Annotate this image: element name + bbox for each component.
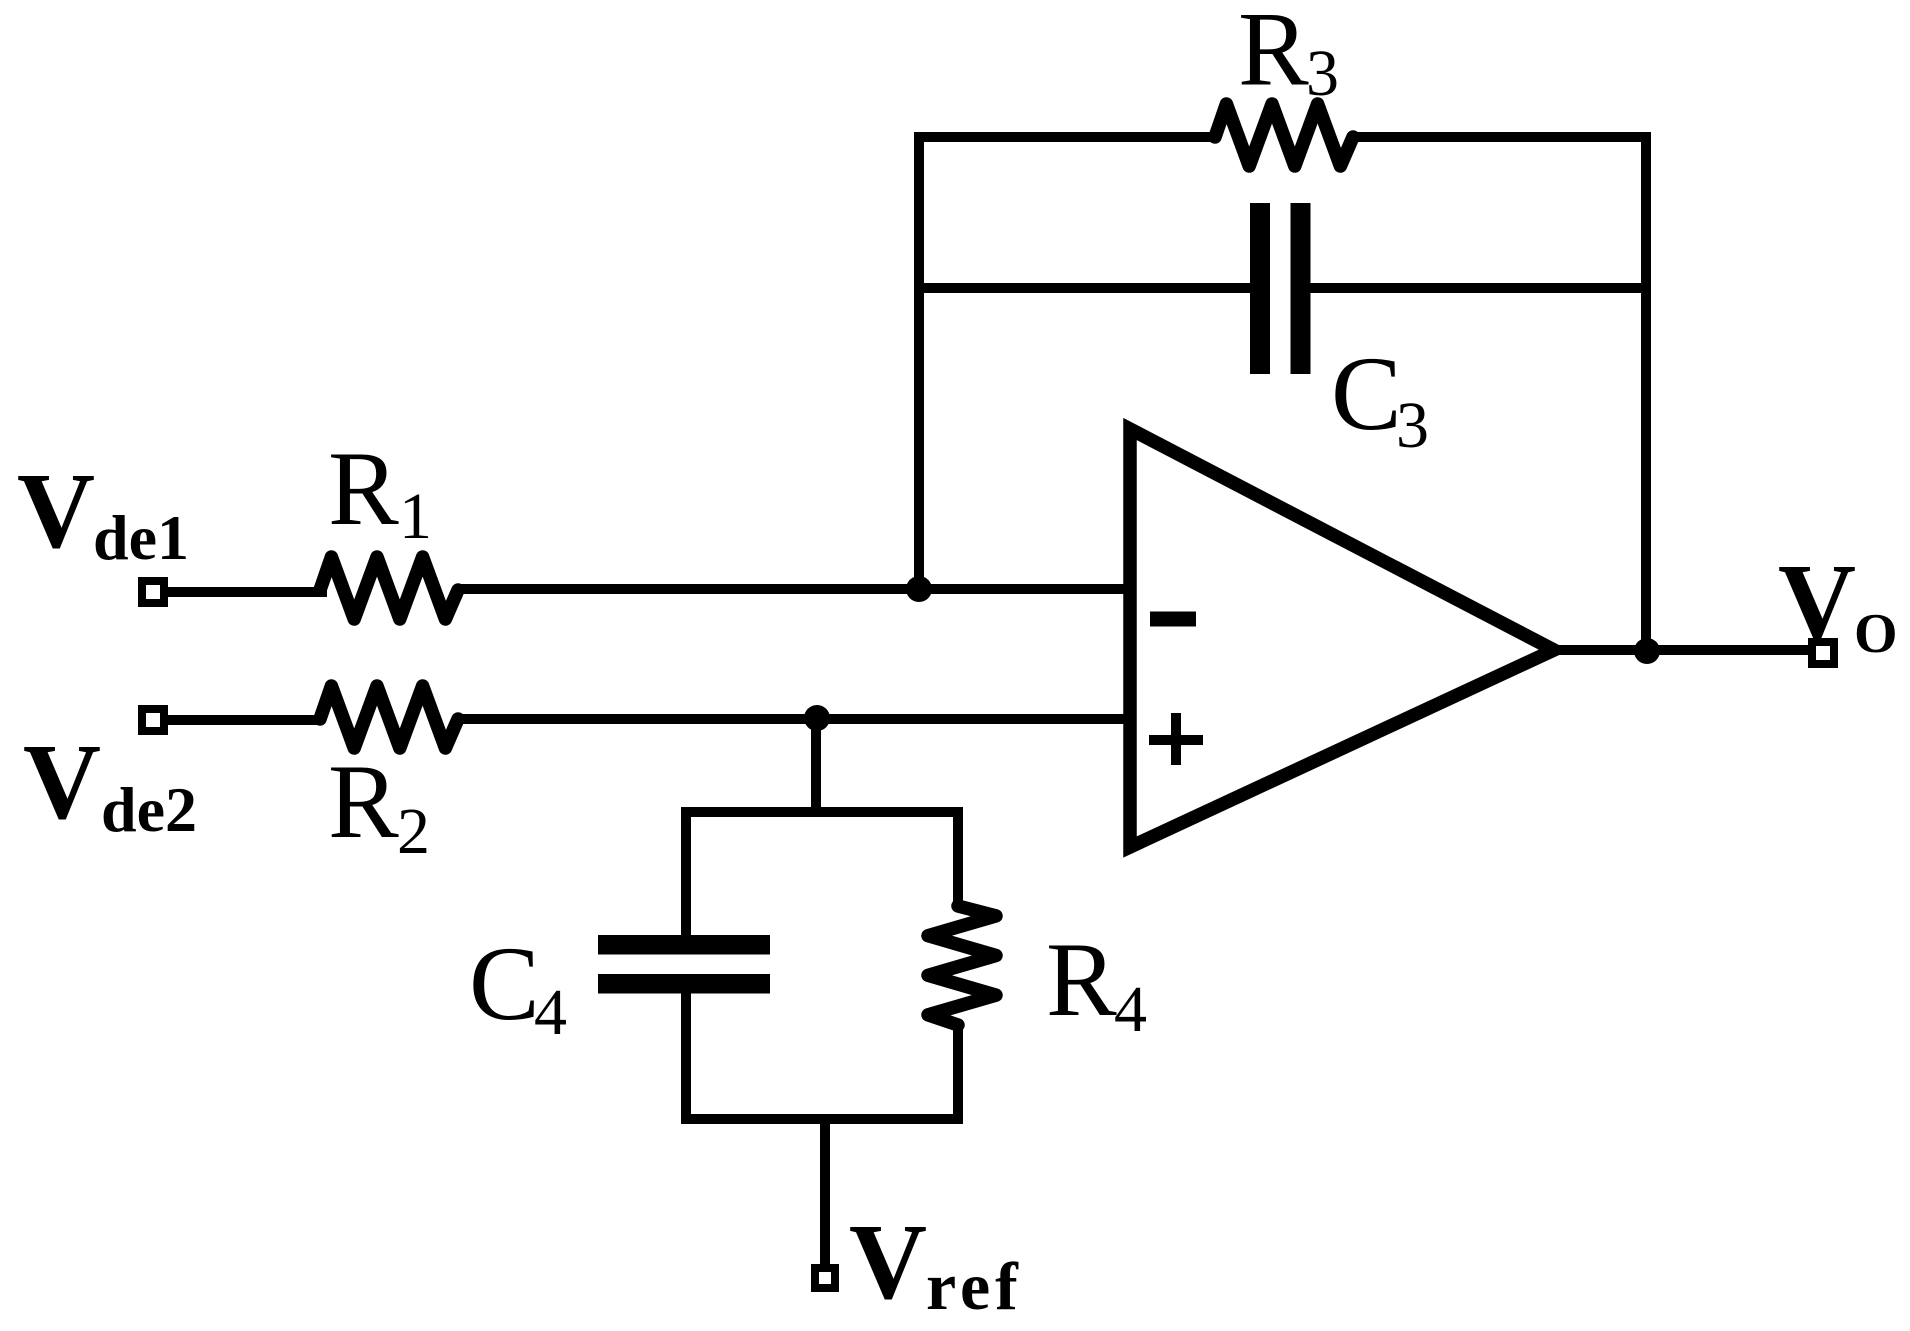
node inverting input junction [906, 576, 932, 602]
label Vref [849, 1203, 1023, 1324]
svg-text:4: 4 [1114, 973, 1147, 1046]
wire C4 branch upper [681, 812, 691, 935]
wire R2 to non-inverting input [458, 714, 1130, 724]
capacitor C3 [1250, 203, 1311, 374]
capacitor C4 [598, 935, 770, 994]
resistor R1 [320, 557, 458, 619]
svg-text:R: R [1238, 0, 1309, 108]
op-amp non-inverting input plus sign [1149, 713, 1203, 765]
svg-text:de1: de1 [93, 502, 189, 573]
wire feedback left vertical [914, 137, 924, 589]
svg-text:V: V [1778, 543, 1856, 662]
label Vo [1778, 543, 1898, 665]
wire R4 branch lower [953, 1025, 963, 1119]
label Vde1 [17, 452, 189, 573]
label R4 [1046, 921, 1147, 1046]
svg-text:V: V [23, 723, 101, 842]
svg-text:R: R [1046, 921, 1117, 1038]
terminal Vref [815, 1268, 835, 1288]
wire R1 to inverting input [458, 584, 1130, 594]
wire feedback top right segment [1353, 132, 1651, 142]
label C3 [1331, 335, 1429, 462]
svg-text:1: 1 [399, 480, 432, 553]
svg-text:R: R [328, 743, 399, 860]
svg-text:3: 3 [1306, 37, 1339, 110]
terminal Vde2 [142, 709, 164, 731]
label R2 [328, 743, 430, 868]
op-amp U1 [1130, 429, 1554, 847]
resistor R4 [928, 906, 996, 1025]
wire Vde1 to R1 [168, 590, 322, 592]
label R1 [328, 430, 432, 553]
op-amp inverting input minus sign [1150, 612, 1196, 627]
wire to Vref terminal [820, 1119, 830, 1264]
svg-text:R: R [328, 430, 399, 547]
wire parallel network bottom rail [686, 1114, 958, 1119]
svg-text:ref: ref [926, 1248, 1023, 1324]
wire R4 branch upper [953, 812, 963, 906]
label C4 [469, 925, 567, 1049]
node non-inverting input junction [804, 705, 830, 731]
svg-text:V: V [849, 1203, 927, 1322]
svg-text:2: 2 [397, 795, 430, 868]
resistor R3 [1215, 104, 1353, 166]
svg-text:de2: de2 [101, 774, 197, 845]
wire capacitor branch right [1311, 283, 1647, 293]
wire Vde2 to R2 [168, 715, 322, 725]
label Vde2 [23, 723, 197, 845]
resistor R2 [320, 686, 458, 748]
svg-text:3: 3 [1396, 389, 1429, 462]
wire junction to parallel network [811, 719, 821, 812]
wire feedback right vertical [1641, 137, 1651, 651]
svg-text:O: O [1854, 603, 1898, 665]
wire capacitor branch left [919, 283, 1250, 293]
svg-text:C: C [1331, 335, 1402, 452]
wire C4 branch lower [681, 993, 691, 1119]
wire op-amp output [1550, 645, 1809, 655]
terminal Vde1 [142, 581, 164, 603]
wire feedback top left segment [914, 132, 1215, 142]
svg-text:4: 4 [534, 976, 567, 1049]
node output junction [1634, 638, 1660, 664]
svg-text:C: C [469, 925, 540, 1042]
label R3 [1238, 0, 1339, 110]
terminal Vo [1812, 642, 1834, 664]
svg-text:V: V [17, 452, 95, 571]
wire parallel network top rail [686, 812, 958, 817]
